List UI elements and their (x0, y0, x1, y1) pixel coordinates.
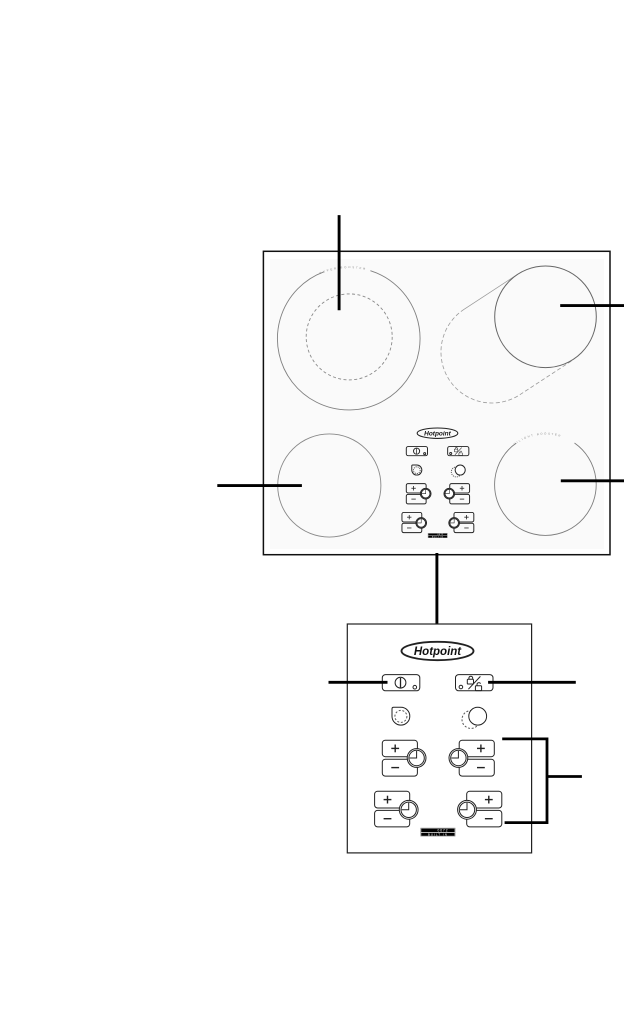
magnified control panel (375, 642, 502, 837)
bracket to timer keys (502, 739, 582, 823)
burner TL inner dashed ring (306, 294, 392, 380)
magnified panel outline (347, 624, 531, 853)
callout line to lock button (488, 681, 576, 684)
burner TL outer ring (277, 271, 420, 410)
connector hob to panel (435, 553, 438, 630)
burner BL circle (278, 434, 381, 537)
burner TR circle (495, 266, 597, 368)
callout line to TL burner (338, 215, 341, 310)
burner BR circle (495, 443, 597, 535)
callout line to BL burner (217, 484, 302, 487)
hob outline (263, 251, 610, 554)
burner TR oval zone outline (464, 274, 517, 309)
burner BR arc text (515, 435, 577, 446)
burner TL arc text (320, 268, 375, 274)
callout line to TR burner (560, 304, 624, 307)
callout line to BR burner (561, 479, 624, 482)
callout line to power button (329, 681, 388, 684)
small control panel on hob (402, 428, 474, 538)
hob surface tint (270, 259, 604, 549)
